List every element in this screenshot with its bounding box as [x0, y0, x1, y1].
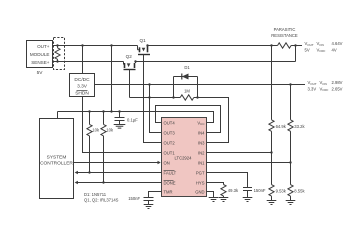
wire OUT4 to IN4 wrap [156, 106, 221, 133]
wire 1M / gate net [130, 98, 229, 143]
svg-text:33.2k: 33.2k [294, 124, 305, 129]
svg-text:8.55k: 8.55k [294, 189, 305, 194]
wire VCC bus feed from 5V line [111, 46, 113, 112]
node SENSE+ tap [56, 60, 58, 62]
svg-text:SENSE+: SENSE+ [31, 60, 50, 65]
ground (GND pin) [209, 198, 219, 202]
svg-text:IN4: IN4 [198, 130, 205, 135]
ground (PGT cap) [243, 198, 253, 202]
wire ON from controller [74, 162, 159, 164]
svg-text:9.53k: 9.53k [276, 189, 287, 194]
resistor 64.9k divider top [269, 46, 274, 185]
node OUT3 rail tap [148, 83, 150, 85]
node bus 5V feed [110, 110, 112, 112]
svg-text:VOUT: VOUT [308, 80, 317, 86]
svg-text:CONTROLLER: CONTROLLER [40, 161, 73, 167]
diode D1 [184, 65, 190, 70]
ground (HYS resistor) [219, 198, 229, 202]
transistor Q2 [126, 54, 133, 59]
svg-text:Q2: Q2 [126, 54, 133, 59]
ground (TMR cap) [144, 205, 154, 209]
svg-text:0.1µF: 0.1µF [127, 118, 138, 123]
svg-text:DC/DC: DC/DC [74, 77, 90, 83]
svg-text:10k: 10k [106, 128, 114, 133]
wire IN1 to 3.3V divider [207, 162, 291, 164]
svg-text:D1: 1N5711: D1: 1N5711 [84, 192, 107, 197]
node 1M net left [172, 96, 174, 98]
svg-text:PARASITIC: PARASITIC [274, 27, 296, 32]
node gate net / OUT3 vertical [148, 96, 150, 98]
wire 3.3V rail [95, 84, 306, 86]
svg-text:TMR: TMR [164, 189, 173, 194]
svg-text:OUT4: OUT4 [164, 120, 176, 125]
svg-text:HYS: HYS [196, 180, 205, 185]
wire PGT to cap [207, 173, 248, 188]
capacitor 150nF (PGT) [243, 188, 252, 198]
svg-text:ON: ON [164, 160, 170, 165]
svg-text:3.3V: 3.3V [308, 86, 317, 91]
wire FAULT to controller [78, 172, 162, 174]
node VOUT 3.3V labels [308, 80, 343, 92]
DC/DC converter box [70, 74, 95, 97]
wire DONE to controller [78, 182, 162, 184]
resistor 49.3k [221, 185, 226, 198]
module box 5V [27, 41, 53, 68]
wire GND pin [207, 192, 214, 198]
svg-text:OUT+: OUT+ [37, 44, 50, 49]
node 10k right top [102, 110, 104, 112]
svg-text:MODULE: MODULE [30, 52, 50, 57]
wire SHDN to OUT1 [83, 97, 162, 153]
svg-text:VCC: VCC [197, 120, 205, 126]
system controller box [40, 119, 74, 199]
svg-text:OUT2: OUT2 [164, 140, 176, 145]
svg-text:IN1: IN1 [198, 160, 205, 165]
svg-text:5V: 5V [305, 47, 310, 52]
svg-text:2.98V: 2.98V [332, 80, 343, 85]
IC U1 LTC2924 [162, 118, 207, 197]
wire DC/DC input feed [82, 46, 84, 74]
svg-text:150nF: 150nF [254, 188, 266, 193]
wire OUT3 vertical [150, 85, 162, 133]
svg-text:3.3V: 3.3V [77, 84, 88, 90]
svg-text:IN3: IN3 [198, 140, 205, 145]
resistor 9.53k divider bottom [269, 185, 274, 201]
wire Q2 gate to 1M net [129, 70, 131, 98]
node 1M net right [196, 96, 198, 98]
ground (3.3V divider) [286, 201, 296, 205]
module labels [30, 44, 50, 76]
wire SENSE+ line right [136, 61, 296, 63]
node parasitic right [294, 44, 296, 46]
note component values [84, 192, 119, 203]
wire VCC bus [58, 112, 214, 123]
svg-text:GND: GND [195, 189, 204, 194]
node Q1 drain [146, 44, 148, 46]
svg-text:SYSTEM: SYSTEM [47, 155, 67, 161]
node DC/DC feed [81, 44, 83, 46]
wire controller supply to VCC bus [57, 112, 59, 119]
wire 5V line after Q1 [148, 45, 303, 47]
svg-text:Q1, Q2: IRL3714S: Q1, Q2: IRL3714S [84, 197, 119, 202]
resistor 10k (right pull-up) [101, 112, 106, 183]
svg-text:RESISTANCE: RESISTANCE [271, 33, 298, 38]
node OUT+ sense tap [56, 44, 58, 46]
ground (5V divider) [267, 201, 277, 205]
node VOUT 5V labels [305, 41, 343, 53]
wire Q1 gate to OUT2 [144, 55, 162, 143]
node IN2 divider tap [270, 151, 272, 153]
resistor parasitic resistance [278, 43, 292, 48]
svg-text:150nF: 150nF [128, 196, 140, 201]
svg-text:SHDN: SHDN [75, 91, 89, 97]
svg-text:64.9k: 64.9k [276, 124, 287, 129]
resistor inside dashed box [55, 46, 60, 62]
node 10k left top [88, 110, 90, 112]
capacitor 150nF (TMR) [144, 198, 154, 205]
resistor 8.55k divider bottom [288, 185, 293, 201]
wire IN2 to 5V divider [207, 152, 272, 154]
node DONE pull-up [102, 181, 104, 183]
resistor 33.2k divider top [288, 85, 293, 185]
resistor 1M [180, 95, 194, 100]
svg-text:IN2: IN2 [198, 150, 205, 155]
capacitor 0.1uF [115, 112, 125, 125]
node cap top [118, 110, 120, 112]
wire remote sense vertical [295, 46, 297, 62]
node on 5V line [110, 44, 112, 46]
wire 5V OUT+ line [53, 45, 138, 47]
svg-text:49.3k: 49.3k [228, 188, 239, 193]
svg-text:PGT: PGT [196, 170, 205, 175]
svg-text:VOFF: VOFF [317, 47, 326, 53]
svg-text:10k: 10k [92, 128, 100, 133]
svg-text:VON: VON [317, 41, 324, 47]
svg-text:Q1: Q1 [140, 38, 147, 43]
svg-text:D1: D1 [184, 65, 190, 70]
svg-text:DONE: DONE [164, 180, 176, 185]
svg-text:VOUT: VOUT [305, 41, 314, 47]
svg-text:OUT3: OUT3 [164, 130, 176, 135]
svg-text:1M: 1M [184, 89, 190, 94]
svg-text:LTC2924: LTC2924 [175, 156, 193, 161]
wire TMR to cap [149, 192, 162, 198]
svg-text:FAULT: FAULT [164, 170, 177, 175]
wire HYS to resistor [207, 183, 224, 185]
svg-text:VON: VON [320, 80, 327, 86]
transistor Q1 [140, 38, 147, 43]
svg-text:4V: 4V [332, 47, 337, 52]
node IN1 divider tap [289, 161, 291, 163]
svg-text:VOFF: VOFF [320, 86, 329, 92]
dashed remote-sense box [54, 38, 65, 70]
node Q2 drain / sense junction [134, 60, 136, 62]
node 3.3V rail tap [289, 83, 291, 85]
svg-text:5V: 5V [37, 70, 44, 76]
ground (0.1uF) [114, 125, 126, 129]
wire SENSE+ line left [53, 61, 124, 63]
node FAULT pull-up [88, 171, 90, 173]
svg-text:2.65V: 2.65V [332, 86, 343, 91]
resistor 10k (left pull-up) [87, 112, 92, 173]
node parasitic left [270, 44, 272, 46]
svg-text:4.64V: 4.64V [332, 41, 343, 46]
